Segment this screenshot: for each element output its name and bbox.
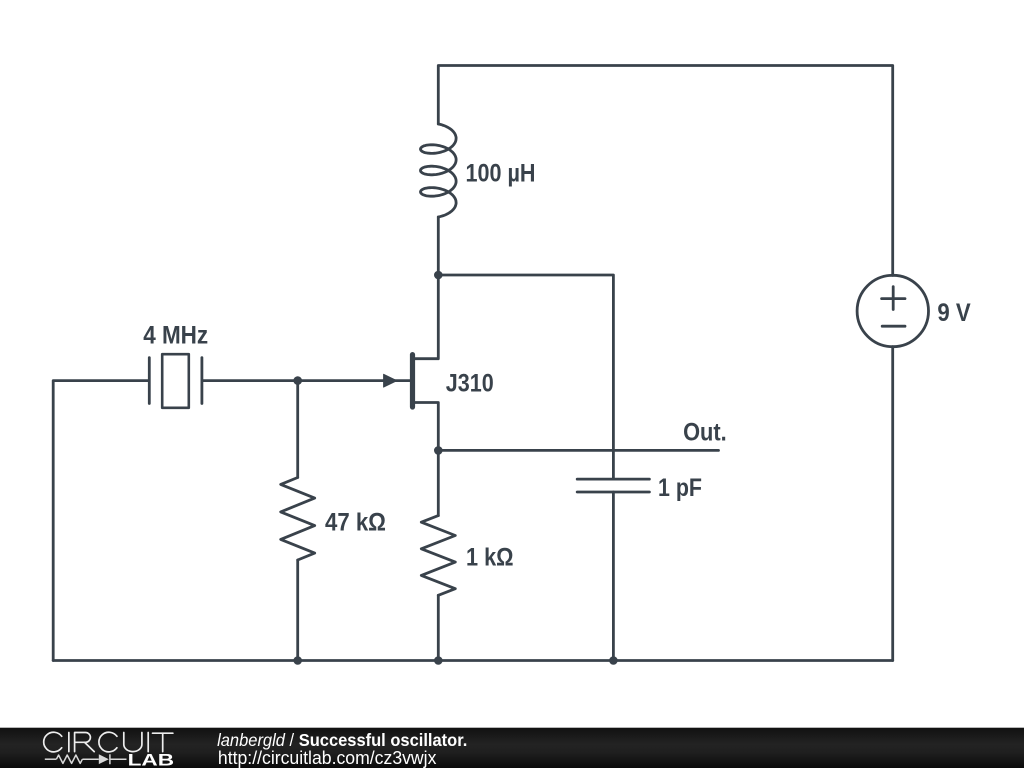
svg-text:9 V: 9 V bbox=[937, 300, 971, 327]
svg-text:4 MHz: 4 MHz bbox=[143, 321, 208, 349]
svg-text:1 pF: 1 pF bbox=[658, 474, 702, 502]
svg-text:100 µH: 100 µH bbox=[466, 159, 536, 187]
svg-text:47 kΩ: 47 kΩ bbox=[325, 510, 386, 537]
svg-text:http://circuitlab.com/cz3vwjx: http://circuitlab.com/cz3vwjx bbox=[218, 748, 437, 768]
svg-text:J310: J310 bbox=[446, 369, 494, 397]
svg-text:lanbergld / Successful oscilla: lanbergld / Successful oscillator. bbox=[217, 729, 467, 750]
svg-text:LAB: LAB bbox=[128, 751, 174, 768]
svg-text:Out.: Out. bbox=[683, 418, 727, 446]
svg-text:1 kΩ: 1 kΩ bbox=[466, 543, 514, 571]
